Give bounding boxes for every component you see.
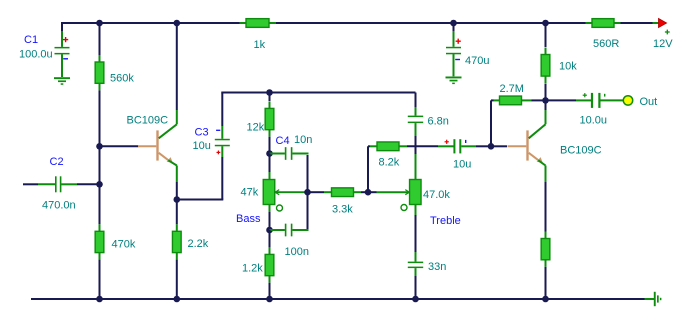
svg-text:2.7M: 2.7M bbox=[500, 83, 524, 95]
svg-text:1.2k: 1.2k bbox=[242, 263, 263, 275]
svg-text:C2: C2 bbox=[50, 156, 64, 168]
svg-text:3.3k: 3.3k bbox=[332, 204, 353, 216]
svg-text:1k: 1k bbox=[254, 39, 266, 51]
svg-text:12V: 12V bbox=[653, 38, 673, 50]
svg-text:560k: 560k bbox=[110, 73, 134, 85]
svg-text:BC109C: BC109C bbox=[560, 145, 602, 157]
svg-text:560R: 560R bbox=[593, 38, 619, 50]
svg-text:47k: 47k bbox=[241, 187, 259, 199]
svg-text:C4: C4 bbox=[276, 135, 290, 147]
svg-text:10u: 10u bbox=[453, 159, 471, 171]
svg-text:10u: 10u bbox=[193, 140, 211, 152]
svg-text:8.2k: 8.2k bbox=[379, 157, 400, 169]
svg-text:Treble: Treble bbox=[430, 215, 461, 227]
svg-text:470u: 470u bbox=[465, 55, 489, 67]
svg-text:470k: 470k bbox=[112, 239, 136, 251]
svg-text:6.8n: 6.8n bbox=[428, 116, 449, 128]
svg-text:33n: 33n bbox=[428, 261, 446, 273]
svg-text:100n: 100n bbox=[285, 246, 309, 258]
svg-text:470.0n: 470.0n bbox=[42, 200, 76, 212]
svg-text:Bass: Bass bbox=[236, 213, 261, 225]
svg-text:10k: 10k bbox=[559, 61, 577, 73]
svg-text:100.0u: 100.0u bbox=[19, 49, 53, 61]
svg-text:10.0u: 10.0u bbox=[580, 114, 608, 126]
svg-text:12k: 12k bbox=[247, 122, 265, 134]
svg-text:C1: C1 bbox=[24, 34, 38, 46]
svg-text:C3: C3 bbox=[195, 127, 209, 139]
svg-text:Out: Out bbox=[640, 96, 658, 108]
svg-text:10n: 10n bbox=[294, 134, 312, 146]
svg-text:47.0k: 47.0k bbox=[423, 189, 450, 201]
svg-text:2.2k: 2.2k bbox=[188, 238, 209, 250]
svg-text:BC109C: BC109C bbox=[127, 114, 169, 126]
